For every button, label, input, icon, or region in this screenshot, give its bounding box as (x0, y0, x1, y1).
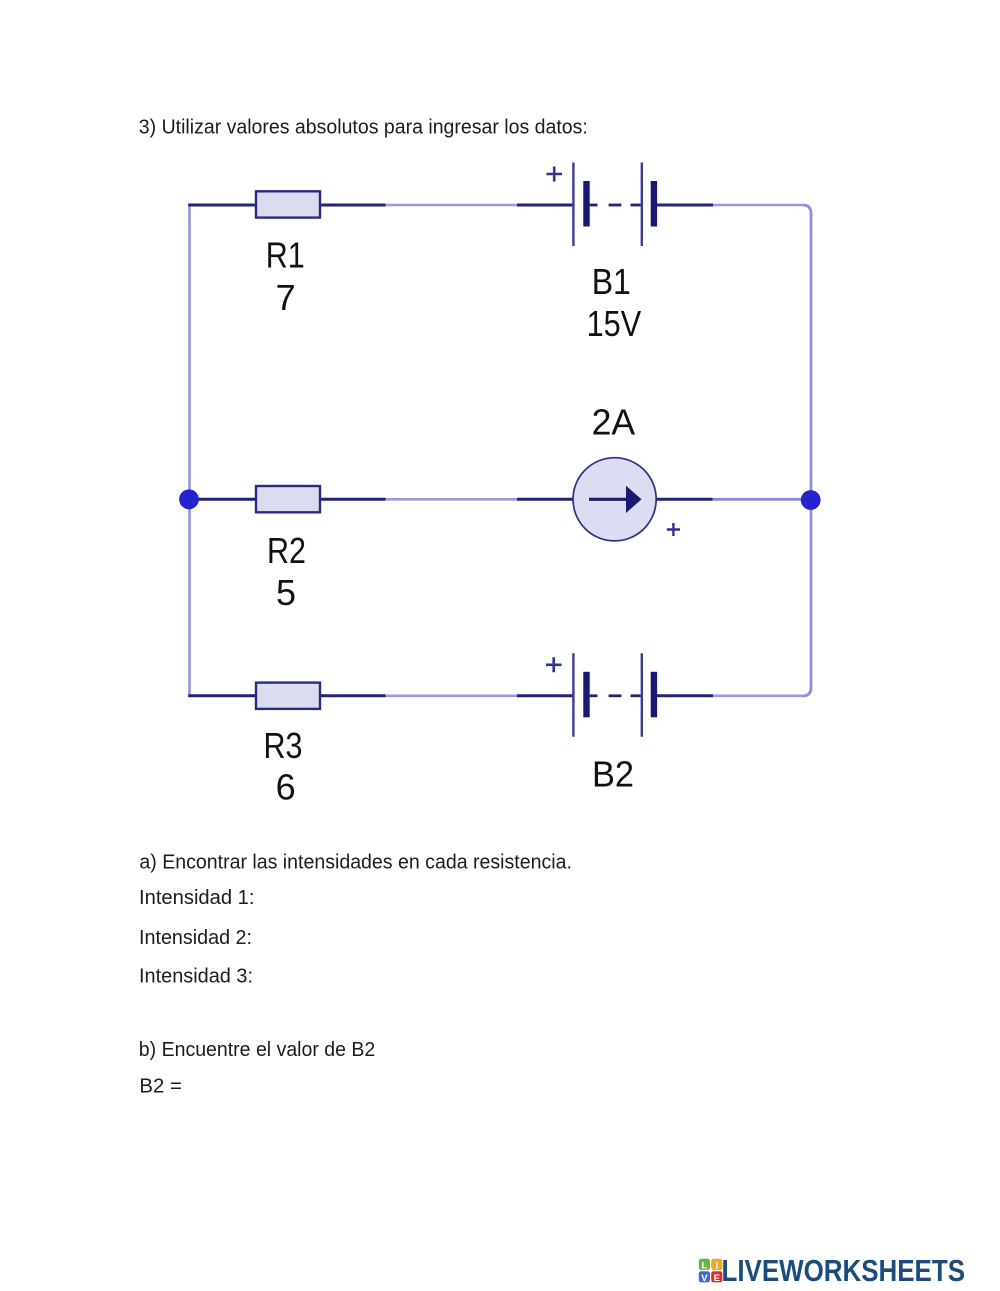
wire middle branch light right (713, 498, 806, 501)
svg-text:I: I (715, 1261, 718, 1272)
wire bottom branch dark to battery (517, 694, 573, 697)
svg-text:V: V (701, 1273, 708, 1284)
svg-text:2A: 2A (592, 402, 636, 443)
svg-text:R2: R2 (267, 530, 306, 571)
wire top branch light right (713, 204, 804, 207)
resistor R1 (256, 191, 320, 217)
wire middle branch dark left (189, 498, 256, 501)
wire bottom branch dark after resistor (320, 694, 386, 697)
wire top branch dark after battery (657, 204, 713, 207)
wire top branch dark after resistor (320, 204, 386, 207)
node B right junction (801, 490, 821, 510)
svg-text:Intensidad 3:: Intensidad 3: (139, 966, 253, 988)
wire right vertical (803, 205, 812, 696)
svg-text:B2: B2 (592, 754, 634, 795)
polarity + B1 (547, 167, 563, 182)
current source 2A (573, 458, 656, 541)
wire middle branch dark after source (657, 498, 713, 501)
wire bottom branch light middle (386, 694, 518, 697)
svg-text:3) Utilizar valores absolutos: 3) Utilizar valores absolutos para ingre… (139, 117, 588, 139)
wire top branch dark left (188, 204, 256, 207)
svg-text:L: L (701, 1261, 707, 1272)
resistor R3 (256, 683, 320, 709)
wire middle branch light middle (386, 498, 518, 501)
battery B1 (573, 163, 657, 247)
battery B2 (573, 653, 657, 737)
wire bottom branch light right (713, 694, 804, 697)
svg-text:Intensidad 2:: Intensidad 2: (139, 927, 252, 949)
wire top branch dark to battery (517, 204, 573, 207)
svg-text:LIVEWORKSHEETS: LIVEWORKSHEETS (722, 1253, 966, 1288)
svg-text:5: 5 (276, 572, 296, 613)
svg-text:B2 =: B2 = (139, 1076, 182, 1098)
svg-text:6: 6 (276, 767, 296, 808)
wire middle branch dark to source (517, 498, 574, 501)
svg-text:R3: R3 (264, 725, 303, 766)
polarity + source (667, 523, 680, 536)
wire middle branch dark after resistor (320, 498, 386, 501)
liveworksheets logo icon (699, 1259, 723, 1284)
svg-text:b) Encuentre el valor de B2: b) Encuentre el valor de B2 (139, 1039, 375, 1061)
svg-text:7: 7 (276, 277, 296, 318)
svg-text:R1: R1 (266, 235, 305, 276)
svg-text:E: E (714, 1273, 720, 1284)
svg-text:Intensidad 1:: Intensidad 1: (139, 887, 255, 909)
polarity + B2 (546, 657, 562, 672)
svg-text:15V: 15V (587, 303, 642, 344)
node A left junction (179, 489, 199, 509)
wire top branch light middle (386, 204, 518, 207)
resistor R2 (256, 486, 320, 512)
wire bottom branch dark left (188, 694, 256, 697)
wire bottom branch dark after battery (657, 694, 713, 697)
svg-text:a) Encontrar las intensidades: a) Encontrar las intensidades en cada re… (139, 851, 572, 873)
wire left vertical (188, 205, 191, 696)
svg-text:B1: B1 (592, 261, 631, 302)
